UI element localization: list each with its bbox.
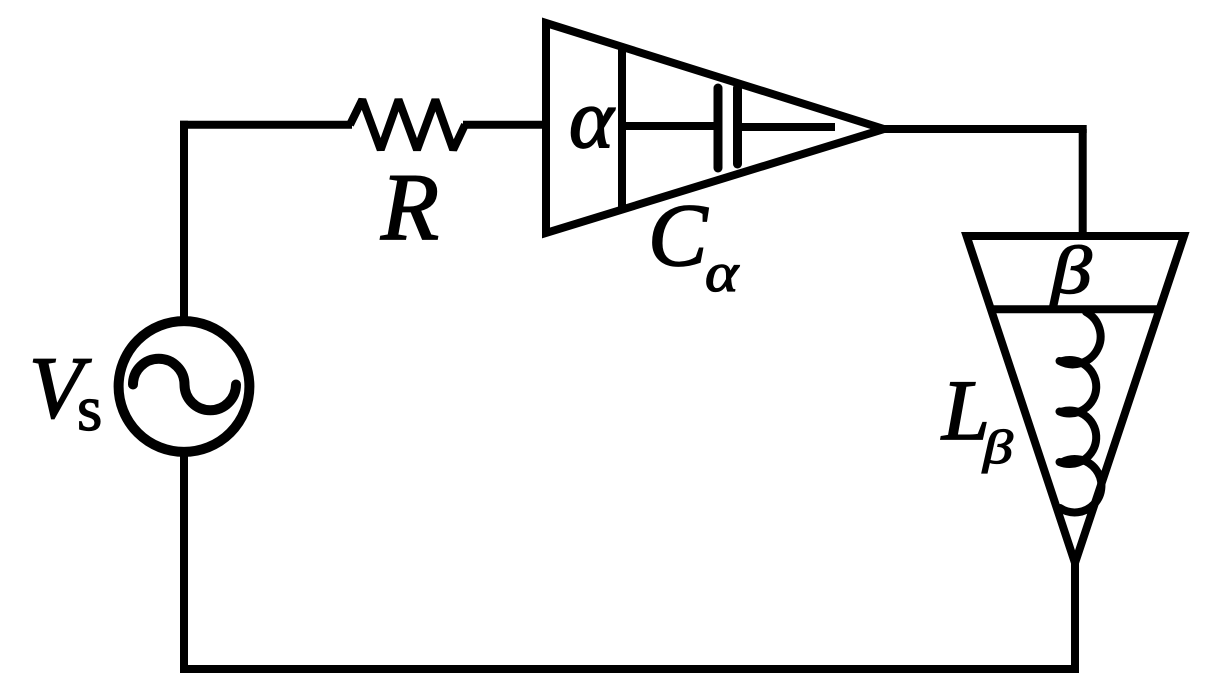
wire divider to capacitor [622, 122, 714, 130]
inductor L_beta coil loop 4 [1060, 459, 1101, 512]
svg-text:β: β [1049, 233, 1092, 308]
capacitor C_alpha right plate [733, 88, 742, 164]
section divider line inside taper [618, 45, 626, 210]
inductor L_beta coil loop 1 [1060, 312, 1101, 364]
svg-text:α: α [569, 72, 616, 166]
wire capacitor to apex stub [742, 123, 835, 131]
wire right vertical lower (apex to bottom) [1071, 563, 1079, 673]
wire resistor to taper alpha [463, 121, 542, 129]
taper section U1 triangle (alpha section) [546, 23, 884, 233]
capacitor C_alpha left plate [714, 88, 723, 168]
inductor L_beta coil loop 2 [1060, 360, 1097, 413]
wire left vertical upper (source to top wire) [180, 121, 188, 325]
wire top horizontal right (apex to corner) [884, 125, 1087, 133]
svg-text:R: R [380, 154, 439, 260]
svg-text:α: α [705, 242, 740, 303]
svg-text:C: C [648, 187, 709, 285]
wire bottom horizontal [180, 665, 1079, 673]
svg-text:s: s [77, 373, 102, 445]
wire right vertical upper (corner down to taper beta) [1079, 129, 1087, 236]
inductor L_beta coil loop 3 [1060, 411, 1097, 464]
svg-text:β: β [982, 421, 1013, 474]
voltage source Vs sine wave [133, 359, 236, 411]
taper section U2 triangle (beta section) [967, 236, 1184, 563]
wire left vertical lower (source to bottom wire) [180, 448, 188, 673]
resistor R zigzag [350, 100, 465, 150]
section divider line inside taper beta [991, 305, 1159, 313]
voltage source Vs circle [119, 321, 250, 452]
wire top horizontal left (corner to resistor) [180, 121, 352, 129]
